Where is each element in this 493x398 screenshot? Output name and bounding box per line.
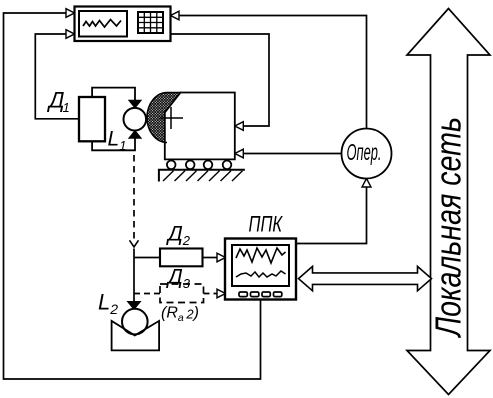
link ППК to network (double arrow) bbox=[299, 266, 432, 290]
roller 4 bbox=[223, 161, 232, 170]
svg-text:ППК: ППК bbox=[249, 212, 284, 237]
recorder screen bbox=[79, 11, 127, 37]
operator Опер bbox=[342, 129, 392, 179]
computer ППК bbox=[225, 239, 296, 300]
svg-text:Опер.: Опер. bbox=[347, 139, 382, 165]
roller 1 bbox=[167, 161, 176, 170]
ground bbox=[159, 170, 245, 182]
recorder unit bbox=[75, 7, 171, 42]
arrowhead into recorder right bbox=[171, 11, 180, 20]
recorder waveform bbox=[83, 20, 121, 28]
ППК waveform bottom bbox=[236, 271, 286, 277]
sensor Д3 (dashed) bbox=[160, 284, 204, 303]
arrowhead into ППК input 1 bbox=[217, 253, 226, 262]
open arrowhead (dashed line end) bbox=[130, 240, 139, 247]
measuring head L1 bbox=[124, 108, 147, 131]
wire: Д1 to recorder bbox=[35, 34, 79, 119]
wire: Д1 to L1 (top) bbox=[92, 88, 135, 101]
ППК screen bbox=[232, 245, 289, 286]
cradle (sample holder) bbox=[112, 321, 160, 351]
wire: ППК to recorder (left/bottom loop) bbox=[4, 13, 261, 379]
machine table bbox=[165, 93, 235, 160]
arrowhead into recorder input 2 bbox=[66, 30, 75, 39]
wire: Опер to machine (line C) bbox=[244, 153, 342, 155]
wheel center mark bbox=[160, 107, 184, 129]
ground hatching bbox=[163, 171, 243, 181]
grinding wheel (hatched) bbox=[147, 92, 181, 142]
arrowhead into L2 bbox=[128, 302, 141, 310]
wire: ППК to Опер (line D) bbox=[296, 188, 367, 244]
arrowhead into Опер bbox=[362, 179, 371, 188]
ППК buttons bbox=[239, 292, 282, 297]
junction wire down to L2 bbox=[133, 249, 135, 303]
sensor Д2 bbox=[160, 249, 203, 267]
wire: junction to Д2 bbox=[134, 257, 160, 259]
roller 2 bbox=[186, 161, 195, 170]
dashed wire: Д3 to ППК bbox=[204, 293, 218, 295]
arrowhead into recorder input 1 bbox=[66, 9, 75, 18]
arrowhead into L1 bottom bbox=[129, 131, 141, 139]
arrowhead into machine input 2 bbox=[235, 149, 244, 158]
sensor Д1 bbox=[79, 97, 105, 141]
local network arrow bbox=[407, 9, 490, 395]
wire: L1 to Д1 (bottom) bbox=[92, 137, 135, 150]
svg-text:Локальная сеть: Локальная сеть bbox=[428, 117, 468, 338]
dashed wire: junction to Д3 bbox=[134, 293, 160, 295]
arrowhead into L1 top bbox=[129, 100, 141, 108]
svg-text:1: 1 bbox=[63, 100, 70, 115]
dashed wire: L1 to junction bbox=[133, 155, 135, 240]
wire: recorder to machine (line B) bbox=[171, 34, 270, 126]
arrowhead into machine input 1 bbox=[235, 122, 244, 131]
wire: Д2 to ППК bbox=[203, 257, 218, 259]
recorder keypad bbox=[138, 12, 163, 33]
reference sample L2 bbox=[122, 309, 148, 335]
ППК waveform top bbox=[236, 248, 286, 263]
arrowhead into ППК input 2 bbox=[217, 289, 226, 298]
wire: Опер to recorder (line A) bbox=[179, 16, 367, 129]
roller 3 bbox=[204, 161, 213, 170]
